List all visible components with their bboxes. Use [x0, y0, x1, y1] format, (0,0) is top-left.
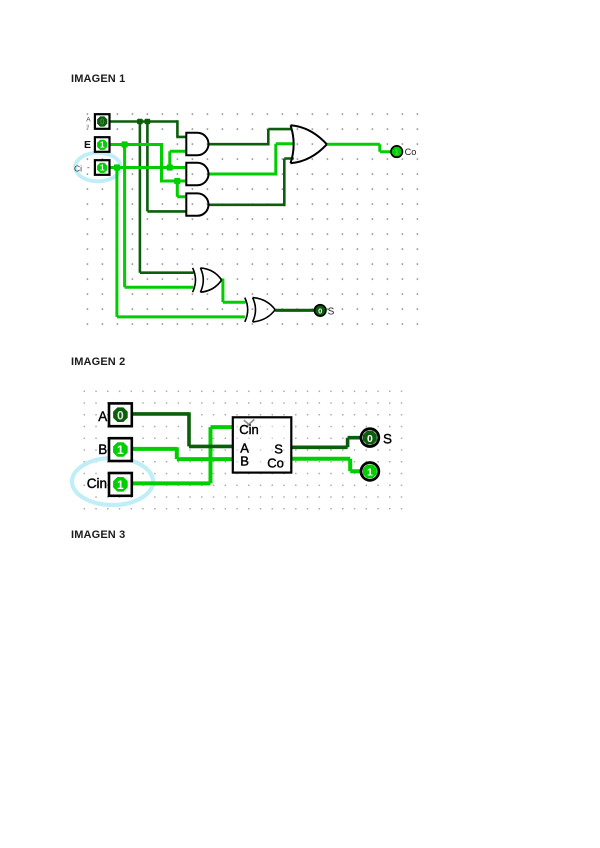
heading IMAGEN 1: [71, 73, 125, 85]
svg-text:Co: Co: [405, 147, 417, 157]
svg-text:Co: Co: [267, 456, 284, 471]
wire B to subcircuit: [132, 447, 234, 459]
subcircuit box U1: [233, 417, 291, 472]
wire Ci horizontal to AND2: [110, 166, 187, 169]
wire E branch down to XOR1: [125, 145, 194, 288]
svg-text:B: B: [98, 442, 107, 457]
svg-text:0: 0: [367, 433, 373, 445]
XOR gate 2: [245, 298, 275, 322]
wire Cin to subcircuit: [132, 427, 234, 483]
svg-text:S: S: [274, 441, 283, 456]
svg-text:Cin: Cin: [87, 476, 107, 491]
wire XOR1 output to XOR2: [221, 279, 245, 303]
junction Ci branch down: [114, 164, 120, 170]
svg-text:Cin: Cin: [239, 422, 259, 437]
subcircuit anchor mark: [244, 419, 255, 426]
svg-text:0: 0: [318, 306, 322, 315]
heading IMAGEN 3: [71, 529, 125, 541]
wire E branch to AND3: [177, 181, 186, 197]
output pin S (value 0): [315, 305, 326, 316]
wire A to subcircuit: [132, 412, 234, 446]
wire Co output: [291, 459, 361, 472]
svg-text:B: B: [240, 453, 249, 468]
wire A branch 1 vertical to XOR1: [140, 122, 194, 273]
wire A branch 2 vertical to AND3: [147, 122, 186, 212]
svg-text:E: E: [84, 139, 91, 151]
svg-text:A: A: [86, 116, 91, 123]
svg-text:0: 0: [100, 118, 105, 127]
wire E down and to AND2: [160, 143, 187, 181]
svg-text:S: S: [328, 306, 335, 317]
input pin Cin2 (value 1): [109, 473, 132, 496]
output pin Co (value 1): [391, 146, 402, 157]
svg-text:1: 1: [117, 443, 124, 457]
grid dots circuit 1: [86, 113, 420, 327]
junction on A line: [137, 119, 143, 125]
svg-text:1: 1: [395, 148, 399, 157]
XOR gate 1: [193, 268, 222, 292]
wire Ci branch up to AND1: [170, 151, 187, 167]
input pin A2 (value 0): [109, 403, 132, 426]
wire AND3 output to OR: [208, 159, 293, 207]
wire AND2 output to OR: [208, 144, 294, 176]
wire AND1 output to OR: [208, 129, 292, 145]
svg-text:Ci: Ci: [74, 164, 82, 174]
input pin Ci (value 1): [95, 160, 110, 175]
selection halo around pin Ci: [75, 153, 120, 182]
output pin Co2 (value 1): [361, 463, 379, 481]
svg-text:u: u: [87, 123, 90, 129]
svg-text:0: 0: [117, 408, 124, 422]
wire OR output to Co pin: [327, 144, 391, 151]
input pin B2 (value 1): [109, 438, 132, 461]
svg-text:S: S: [383, 432, 392, 447]
grid dots circuit 2: [83, 390, 407, 513]
AND gate 1: [186, 133, 208, 155]
wire A horizontal from pin A: [110, 120, 178, 123]
wire A corner down to AND1: [176, 120, 186, 137]
junction on A line: [145, 119, 151, 125]
svg-text:1: 1: [367, 466, 373, 478]
junction on E line: [122, 141, 128, 147]
junction Ci branch up: [167, 164, 173, 170]
output pin S2 (value 0): [361, 429, 379, 447]
wire S output: [291, 438, 361, 448]
wire XOR2 output to S pin: [275, 309, 314, 312]
junction E branch: [174, 178, 180, 184]
input pin A (value 0): [95, 114, 110, 129]
svg-text:-: -: [87, 163, 90, 172]
wire Ci branch down to XOR2: [117, 168, 245, 317]
AND gate 3: [186, 193, 208, 215]
svg-text:A: A: [98, 409, 107, 424]
selection halo around pin Cin: [72, 458, 153, 505]
heading IMAGEN 2: [71, 356, 125, 368]
svg-text:1: 1: [100, 163, 105, 173]
wire E horizontal: [110, 143, 162, 146]
input pin E (value 1): [95, 137, 110, 152]
svg-text:1: 1: [117, 478, 124, 492]
AND gate 2: [186, 163, 208, 185]
svg-text:1: 1: [100, 140, 105, 150]
OR gate: [291, 125, 327, 163]
